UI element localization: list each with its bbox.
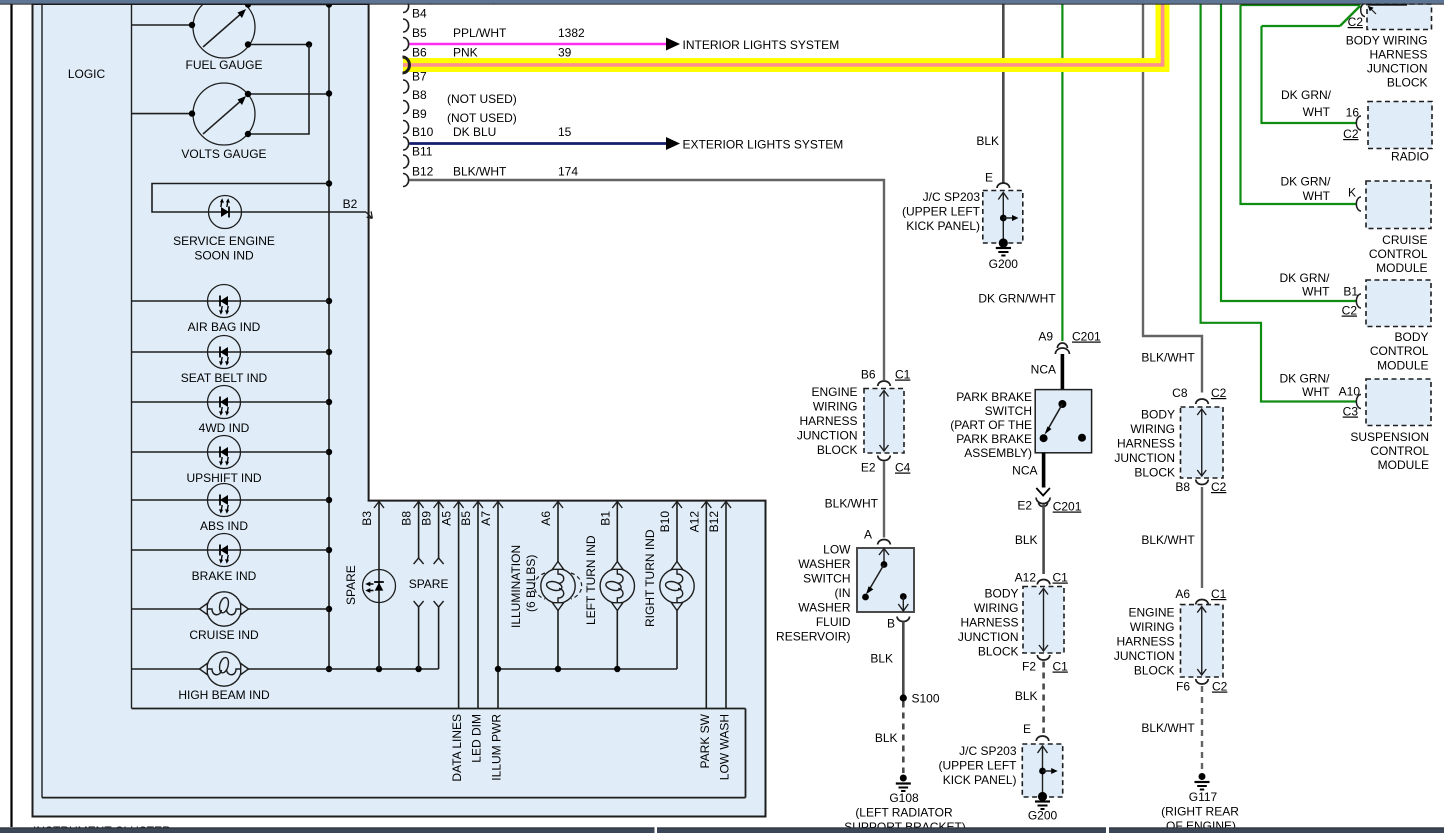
svg-text:G200: G200 bbox=[1028, 809, 1058, 823]
svg-text:C1: C1 bbox=[895, 368, 911, 382]
svg-text:AIR BAG IND: AIR BAG IND bbox=[188, 320, 261, 334]
wire volts gauge bottom bbox=[245, 45, 309, 138]
node A12 C1 bbox=[1015, 571, 1069, 585]
svg-text:ILLUM PWR: ILLUM PWR bbox=[490, 714, 504, 781]
svg-text:SPARE: SPARE bbox=[409, 577, 449, 591]
engine wiring harness junction block U1 bbox=[864, 389, 904, 454]
svg-text:B6: B6 bbox=[861, 368, 876, 382]
svg-text:A6: A6 bbox=[539, 511, 553, 526]
svg-text:G200: G200 bbox=[989, 257, 1019, 271]
svg-text:VOLTS GAUGE: VOLTS GAUGE bbox=[181, 147, 266, 161]
wire fuel gauge left bbox=[132, 22, 196, 28]
svg-text:B6: B6 bbox=[412, 46, 427, 60]
svg-text:A10: A10 bbox=[1339, 385, 1361, 399]
logic divider vertical bbox=[131, 4, 133, 709]
top toolbar bbox=[0, 0, 1444, 5]
node C8 C2 bbox=[1172, 386, 1227, 404]
svg-text:(PART OF THE: (PART OF THE bbox=[950, 418, 1032, 432]
pin label B5 bbox=[412, 26, 427, 40]
svg-text:B3: B3 bbox=[360, 511, 374, 526]
connector box label ILLUM PWR bbox=[490, 714, 504, 781]
svg-text:PNK: PNK bbox=[453, 46, 478, 60]
svg-text:C3: C3 bbox=[1343, 405, 1359, 419]
wire DK GRN/WHT to body control module bbox=[1221, 5, 1357, 302]
svg-text:B12: B12 bbox=[707, 511, 721, 533]
node A bbox=[864, 528, 890, 545]
SPARE socket label bbox=[409, 577, 449, 591]
wire pin A12 vertical bbox=[705, 502, 707, 709]
svg-text:LOGIC: LOGIC bbox=[68, 67, 106, 81]
svg-text:BLK: BLK bbox=[870, 652, 893, 666]
wire pin A7 vertical bbox=[497, 502, 499, 709]
svg-text:DK GRN/: DK GRN/ bbox=[1281, 88, 1332, 102]
lamp bus wire bbox=[495, 666, 677, 672]
arrow exterior lights bbox=[666, 137, 843, 152]
connector box right edge bbox=[745, 709, 747, 798]
wire fuel gauge top to bus bbox=[245, 1, 329, 7]
node K (cruise) bbox=[1280, 175, 1361, 212]
4WD IND LED bbox=[199, 386, 250, 436]
svg-text:HARNESS: HARNESS bbox=[1116, 635, 1174, 649]
svg-text:LEFT TURN IND: LEFT TURN IND bbox=[584, 535, 598, 625]
node E2 C201 bbox=[1017, 488, 1081, 514]
right turn rotated label bbox=[643, 529, 657, 627]
spare LED B3 bbox=[344, 565, 396, 605]
cluster inner border left bbox=[41, 4, 43, 798]
ABS IND LED bbox=[200, 484, 248, 534]
right turn ind lamp bbox=[660, 502, 694, 670]
svg-text:KICK PANEL): KICK PANEL) bbox=[943, 773, 1017, 787]
service engine soon ind LED bbox=[173, 196, 275, 263]
svg-text:B: B bbox=[887, 617, 895, 631]
pin B12 arrow bbox=[707, 502, 731, 533]
instrument cluster panel (L-shape) bbox=[33, 4, 766, 817]
wire name labels bbox=[453, 26, 507, 179]
volts gauge bbox=[181, 83, 266, 161]
ground G117 bbox=[1161, 773, 1239, 833]
svg-text:B9: B9 bbox=[412, 107, 427, 121]
svg-text:(LEFT RADIATOR: (LEFT RADIATOR bbox=[855, 806, 953, 820]
svg-text:MODULE: MODULE bbox=[1378, 458, 1429, 472]
body wiring harness junction block (top right) label bbox=[1346, 34, 1428, 90]
arrow interior lights bbox=[666, 38, 839, 53]
wire BLK to S100 bbox=[870, 622, 903, 696]
B2 arrow bbox=[343, 197, 373, 218]
svg-text:ILLUMINATION: ILLUMINATION bbox=[509, 545, 523, 628]
instrument cluster footer label bbox=[33, 824, 171, 838]
cruise control module label bbox=[1369, 233, 1428, 275]
junction connector J/C SP203 bottom bbox=[1022, 744, 1062, 801]
wire PNK core (salmon) bbox=[403, 5, 1163, 65]
svg-text:PARK SW: PARK SW bbox=[698, 713, 712, 768]
svg-text:JUNCTION: JUNCTION bbox=[1367, 62, 1428, 76]
svg-text:CRUISE: CRUISE bbox=[1382, 233, 1427, 247]
svg-text:B10: B10 bbox=[658, 511, 672, 533]
ground G200 (top) bbox=[989, 248, 1019, 271]
bus wire vertical bbox=[326, 1, 332, 672]
svg-text:B10: B10 bbox=[412, 125, 434, 139]
svg-text:WIRING: WIRING bbox=[974, 601, 1019, 615]
svg-text:C2: C2 bbox=[1342, 304, 1358, 318]
splice S100 bbox=[900, 692, 940, 706]
page left border bbox=[10, 4, 12, 827]
svg-text:DATA LINES: DATA LINES bbox=[450, 714, 464, 782]
svg-text:C2: C2 bbox=[1211, 480, 1227, 494]
svg-text:BLK/WHT: BLK/WHT bbox=[1141, 721, 1195, 735]
HIGH BEAM IND lamp bbox=[178, 652, 270, 702]
pin B5 arrow bbox=[459, 502, 483, 526]
svg-text:B1: B1 bbox=[598, 511, 612, 526]
wire fuel gauge right bbox=[245, 41, 312, 47]
pin label B9 bbox=[412, 107, 427, 121]
clipped top row bbox=[427, 0, 497, 5]
svg-text:E2: E2 bbox=[1017, 499, 1032, 513]
svg-text:A7: A7 bbox=[479, 511, 493, 526]
J/C SP203 top label bbox=[902, 190, 981, 233]
pin label B6 bbox=[412, 46, 427, 60]
body control module label bbox=[1370, 330, 1429, 373]
UPSHIFT IND LED bbox=[186, 436, 261, 486]
svg-text:C1: C1 bbox=[1211, 587, 1227, 601]
LOGIC label bbox=[68, 67, 106, 81]
ground G108 bbox=[844, 775, 966, 835]
svg-text:BLOCK: BLOCK bbox=[1134, 466, 1175, 480]
wire volts gauge top to bus bbox=[245, 91, 329, 97]
svg-text:HARNESS: HARNESS bbox=[799, 414, 857, 428]
BRAKE IND LED bbox=[192, 534, 257, 584]
svg-text:BODY: BODY bbox=[1141, 408, 1175, 422]
pin label B10 bbox=[412, 125, 434, 139]
svg-text:SERVICE ENGINE: SERVICE ENGINE bbox=[173, 234, 275, 248]
wire NCA lower bbox=[1012, 453, 1043, 488]
svg-text:PARK BRAKE: PARK BRAKE bbox=[956, 432, 1032, 446]
illumination rotated label bbox=[509, 545, 538, 628]
svg-text:BLK: BLK bbox=[1015, 533, 1038, 547]
svg-text:39: 39 bbox=[558, 46, 572, 60]
wire UPSHIFT IND row bbox=[132, 451, 330, 453]
svg-text:WHT: WHT bbox=[1303, 189, 1331, 203]
svg-text:BLK/WHT: BLK/WHT bbox=[453, 165, 507, 179]
svg-text:ABS IND: ABS IND bbox=[200, 519, 248, 533]
wire BLK/WHT dashed to G117 bbox=[1141, 686, 1202, 771]
svg-text:A12: A12 bbox=[1015, 571, 1037, 585]
wire AIR BAG IND row bbox=[132, 300, 330, 302]
svg-text:J/C SP203: J/C SP203 bbox=[959, 744, 1017, 758]
svg-text:16: 16 bbox=[1346, 106, 1360, 120]
fuel gauge bbox=[186, 0, 263, 72]
svg-text:FLUID: FLUID bbox=[816, 615, 851, 629]
svg-text:WIRING: WIRING bbox=[813, 400, 858, 414]
svg-text:C2: C2 bbox=[1212, 680, 1228, 694]
body wiring harness junction block U3 label bbox=[1114, 408, 1175, 480]
body wiring harness junction block label bbox=[958, 587, 1019, 659]
wire 4WD IND row bbox=[132, 401, 330, 403]
svg-text:B4: B4 bbox=[412, 7, 427, 21]
svg-text:C201: C201 bbox=[1072, 330, 1101, 344]
wire PNK highlight (yellow) bbox=[403, 5, 1163, 66]
svg-text:C4: C4 bbox=[895, 461, 911, 475]
svg-text:NCA: NCA bbox=[1031, 363, 1056, 377]
pin label B11 bbox=[412, 145, 433, 159]
wire DK GRN/WHT to park brake bbox=[978, 5, 1062, 342]
pin A6 arrow bbox=[539, 502, 563, 526]
node A10 C3 (suspension) bbox=[1279, 372, 1361, 419]
svg-text:SWITCH: SWITCH bbox=[803, 572, 850, 586]
svg-text:JUNCTION: JUNCTION bbox=[797, 429, 858, 443]
connector box label DATA LINES bbox=[450, 714, 464, 782]
svg-text:BLK: BLK bbox=[1015, 689, 1038, 703]
node B6 C1 bbox=[861, 368, 911, 387]
wire pin A5 vertical bbox=[458, 502, 460, 709]
wire PPL/WHT B5 (magenta) bbox=[410, 43, 667, 45]
svg-text:C201: C201 bbox=[1053, 500, 1082, 514]
svg-text:HARNESS: HARNESS bbox=[1369, 48, 1427, 62]
svg-text:LED DIM: LED DIM bbox=[470, 714, 484, 763]
wire BLK to body JB bbox=[1015, 505, 1044, 575]
svg-text:ENGINE: ENGINE bbox=[811, 385, 857, 399]
node E (top JC) bbox=[985, 171, 1010, 189]
node F2 C1 bbox=[1022, 655, 1068, 674]
svg-text:RADIO: RADIO bbox=[1391, 150, 1429, 164]
J/C SP203 bottom label bbox=[938, 744, 1017, 787]
wire BLK dashed to JC SP203 bbox=[1015, 662, 1044, 734]
svg-text:A12: A12 bbox=[687, 511, 701, 533]
svg-text:1382: 1382 bbox=[558, 26, 585, 40]
body control module bbox=[1366, 280, 1431, 327]
svg-text:EXTERIOR LIGHTS SYSTEM: EXTERIOR LIGHTS SYSTEM bbox=[683, 138, 844, 152]
park brake switch label bbox=[950, 390, 1032, 460]
svg-text:BODY: BODY bbox=[984, 587, 1018, 601]
wire service engine loop bbox=[152, 184, 366, 213]
pin B9 arrow bbox=[420, 502, 444, 526]
left turn ind lamp bbox=[600, 502, 634, 670]
node E2 C4 bbox=[861, 456, 911, 475]
wire DK GRN/WHT to suspension module bbox=[1201, 5, 1357, 402]
wire ABS IND row bbox=[132, 499, 330, 501]
svg-text:PPL/WHT: PPL/WHT bbox=[453, 26, 507, 40]
wire DK BLU B10 (navy) bbox=[410, 142, 667, 145]
svg-text:BLK: BLK bbox=[976, 134, 999, 148]
park brake switch SW2 bbox=[1035, 390, 1091, 453]
wire DK GRN/WHT to radio bbox=[1262, 6, 1361, 124]
svg-text:ASSEMBLY): ASSEMBLY) bbox=[964, 446, 1032, 460]
suspension control module bbox=[1366, 379, 1431, 426]
svg-text:B5: B5 bbox=[412, 26, 427, 40]
pin B1 arrow bbox=[598, 502, 622, 526]
cluster inner border bottom bbox=[42, 797, 746, 799]
node F6 C2 bbox=[1176, 679, 1228, 694]
node B bbox=[887, 617, 910, 631]
node B8 C2 bbox=[1175, 480, 1226, 495]
svg-text:C2: C2 bbox=[1348, 15, 1364, 29]
wire BLK dashed to G108 bbox=[875, 702, 903, 774]
svg-text:DK GRN/: DK GRN/ bbox=[1279, 271, 1330, 285]
svg-text:BLOCK: BLOCK bbox=[817, 443, 858, 457]
svg-text:CONTROL: CONTROL bbox=[1370, 444, 1429, 458]
connector arcs B column bbox=[403, 0, 409, 187]
svg-text:BLK/WHT: BLK/WHT bbox=[1141, 351, 1195, 365]
wire BLK/WHT right column top bbox=[1141, 5, 1202, 393]
svg-text:S100: S100 bbox=[912, 692, 940, 706]
svg-text:DK BLU: DK BLU bbox=[453, 125, 496, 139]
wire BLK/WHT middle right bbox=[1141, 487, 1202, 588]
svg-text:FUEL GAUGE: FUEL GAUGE bbox=[186, 58, 263, 72]
connector box label LOW WASH bbox=[718, 714, 732, 780]
low washer switch label bbox=[776, 543, 851, 644]
svg-text:174: 174 bbox=[558, 165, 578, 179]
node A9 C201 bbox=[1038, 330, 1101, 355]
svg-text:BLK/WHT: BLK/WHT bbox=[1141, 533, 1195, 547]
svg-text:(NOT USED): (NOT USED) bbox=[447, 92, 517, 106]
svg-text:DK GRN/WHT: DK GRN/WHT bbox=[978, 292, 1056, 306]
svg-text:MODULE: MODULE bbox=[1376, 261, 1427, 275]
svg-text:(NOT USED): (NOT USED) bbox=[447, 111, 517, 125]
svg-text:WASHER: WASHER bbox=[798, 601, 851, 615]
svg-text:DK GRN/: DK GRN/ bbox=[1280, 175, 1331, 189]
wire pin B12 vertical bbox=[725, 502, 727, 709]
svg-text:A9: A9 bbox=[1038, 330, 1053, 344]
cruise control module bbox=[1366, 181, 1431, 229]
svg-text:BLOCK: BLOCK bbox=[978, 645, 1019, 659]
radio module bbox=[1368, 102, 1432, 164]
svg-text:15: 15 bbox=[558, 125, 572, 139]
svg-text:C8: C8 bbox=[1172, 386, 1188, 400]
svg-text:BODY WIRING: BODY WIRING bbox=[1346, 34, 1428, 48]
connector box label PARK SW bbox=[698, 713, 712, 768]
svg-text:BODY: BODY bbox=[1394, 330, 1428, 344]
svg-text:SPARE: SPARE bbox=[344, 565, 358, 605]
ground G200 (bottom) bbox=[1028, 802, 1058, 823]
pin label B8 bbox=[412, 88, 427, 102]
pin label B7 bbox=[412, 70, 427, 84]
svg-text:G108: G108 bbox=[889, 791, 919, 805]
svg-text:A5: A5 bbox=[440, 511, 454, 526]
svg-text:BLK/WHT: BLK/WHT bbox=[825, 497, 879, 511]
connector box top edge bbox=[132, 708, 746, 710]
svg-text:(UPPER LEFT: (UPPER LEFT bbox=[938, 759, 1017, 773]
illumination dashed arcs bbox=[534, 573, 581, 599]
wire pin B8 vertical + spare socket bbox=[414, 502, 424, 670]
svg-text:B9: B9 bbox=[420, 511, 434, 526]
svg-text:LOW WASH: LOW WASH bbox=[718, 714, 732, 780]
connector arc B6 bold bbox=[403, 57, 410, 73]
svg-text:4WD IND: 4WD IND bbox=[199, 421, 250, 435]
svg-text:HARNESS: HARNESS bbox=[1117, 437, 1175, 451]
svg-text:B12: B12 bbox=[412, 165, 434, 179]
wire HIGH BEAM row bbox=[132, 666, 439, 672]
svg-text:WASHER: WASHER bbox=[798, 557, 851, 571]
svg-text:C2: C2 bbox=[1211, 386, 1227, 400]
svg-text:(UPPER LEFT: (UPPER LEFT bbox=[902, 205, 981, 219]
svg-text:JUNCTION: JUNCTION bbox=[958, 630, 1019, 644]
not used labels bbox=[447, 92, 517, 125]
bottom status bar bbox=[0, 827, 1444, 833]
svg-text:B5: B5 bbox=[459, 511, 473, 526]
wire BLK/WHT B12 bbox=[410, 180, 885, 380]
pin B3 arrow bbox=[360, 502, 384, 526]
svg-text:(IN: (IN bbox=[835, 586, 851, 600]
wire CRUISE IND row bbox=[132, 608, 330, 610]
body wiring harness junction block U2 bbox=[1023, 587, 1064, 654]
svg-text:A6: A6 bbox=[1175, 587, 1190, 601]
svg-text:DK GRN/: DK GRN/ bbox=[1279, 372, 1330, 386]
svg-text:MODULE: MODULE bbox=[1377, 359, 1428, 373]
svg-text:BLK: BLK bbox=[875, 731, 898, 745]
wire pin B5 vertical bbox=[477, 502, 479, 709]
svg-text:C2: C2 bbox=[1343, 127, 1359, 141]
svg-text:KICK PANEL): KICK PANEL) bbox=[906, 219, 980, 233]
engine wiring harness junction block label bbox=[797, 385, 858, 457]
svg-text:PARK BRAKE: PARK BRAKE bbox=[956, 390, 1032, 404]
svg-text:CRUISE IND: CRUISE IND bbox=[189, 628, 259, 642]
wire DK GRN/WHT to cruise module bbox=[1241, 5, 1361, 204]
svg-text:B8: B8 bbox=[400, 511, 414, 526]
body wiring harness junction block (top right) bbox=[1367, 4, 1432, 30]
svg-text:JUNCTION: JUNCTION bbox=[1114, 649, 1175, 663]
svg-text:ENGINE: ENGINE bbox=[1128, 606, 1174, 620]
svg-text:BRAKE IND: BRAKE IND bbox=[192, 569, 257, 583]
AIR BAG IND LED bbox=[188, 285, 261, 335]
svg-text:CONTROL: CONTROL bbox=[1369, 247, 1428, 261]
wire pin B9 vertical + spare socket bbox=[434, 502, 444, 670]
svg-text:BLOCK: BLOCK bbox=[1134, 664, 1175, 678]
body wiring harness junction block U3 bbox=[1181, 407, 1224, 478]
engine wiring harness junction block U4 label bbox=[1114, 606, 1175, 678]
svg-text:B2: B2 bbox=[343, 197, 358, 211]
node 16 C2 (radio) bbox=[1281, 88, 1361, 141]
pin B8 arrow bbox=[400, 502, 424, 526]
node B1 C2 (body control) bbox=[1279, 271, 1361, 318]
svg-text:CONTROL: CONTROL bbox=[1370, 344, 1429, 358]
svg-text:HARNESS: HARNESS bbox=[960, 616, 1018, 630]
svg-text:B8: B8 bbox=[412, 88, 427, 102]
svg-text:INTERIOR LIGHTS SYSTEM: INTERIOR LIGHTS SYSTEM bbox=[683, 38, 840, 52]
svg-text:B11: B11 bbox=[412, 145, 433, 159]
CRUISE IND lamp bbox=[189, 592, 259, 642]
wire NCA upper bbox=[1031, 354, 1063, 390]
svg-text:SOON IND: SOON IND bbox=[194, 249, 254, 263]
svg-text:(6 BULBS): (6 BULBS) bbox=[524, 555, 538, 612]
svg-text:B8: B8 bbox=[1175, 480, 1190, 494]
low washer switch SW1 bbox=[857, 548, 914, 612]
svg-text:WHT: WHT bbox=[1302, 385, 1330, 399]
svg-text:RESERVOIR): RESERVOIR) bbox=[776, 630, 850, 644]
engine wiring harness junction block U4 bbox=[1181, 605, 1224, 677]
svg-text:K: K bbox=[1348, 186, 1356, 200]
svg-text:WIRING: WIRING bbox=[1130, 620, 1175, 634]
pin A12 arrow bbox=[687, 502, 711, 533]
svg-text:BLOCK: BLOCK bbox=[1387, 76, 1428, 90]
svg-text:C1: C1 bbox=[1053, 571, 1069, 585]
SEAT BELT IND LED bbox=[181, 336, 268, 386]
circuit numbers bbox=[558, 26, 585, 179]
svg-text:WHT: WHT bbox=[1303, 105, 1331, 119]
svg-text:SWITCH: SWITCH bbox=[985, 404, 1032, 418]
connector box label LED DIM bbox=[470, 714, 484, 763]
wire BLK from top bbox=[976, 5, 1003, 183]
svg-text:HIGH BEAM IND: HIGH BEAM IND bbox=[178, 688, 270, 702]
node E (bottom JC) bbox=[1023, 722, 1049, 741]
svg-text:WIRING: WIRING bbox=[1130, 422, 1175, 436]
left turn rotated label bbox=[584, 535, 598, 625]
pin B10 arrow bbox=[658, 502, 682, 533]
node C2 (top right) bbox=[1348, 4, 1365, 30]
svg-text:C1: C1 bbox=[1053, 660, 1069, 674]
wire SEAT BELT IND row bbox=[132, 351, 330, 353]
svg-text:B1: B1 bbox=[1343, 285, 1358, 299]
svg-text:E: E bbox=[985, 171, 993, 185]
svg-text:F2: F2 bbox=[1022, 660, 1036, 674]
